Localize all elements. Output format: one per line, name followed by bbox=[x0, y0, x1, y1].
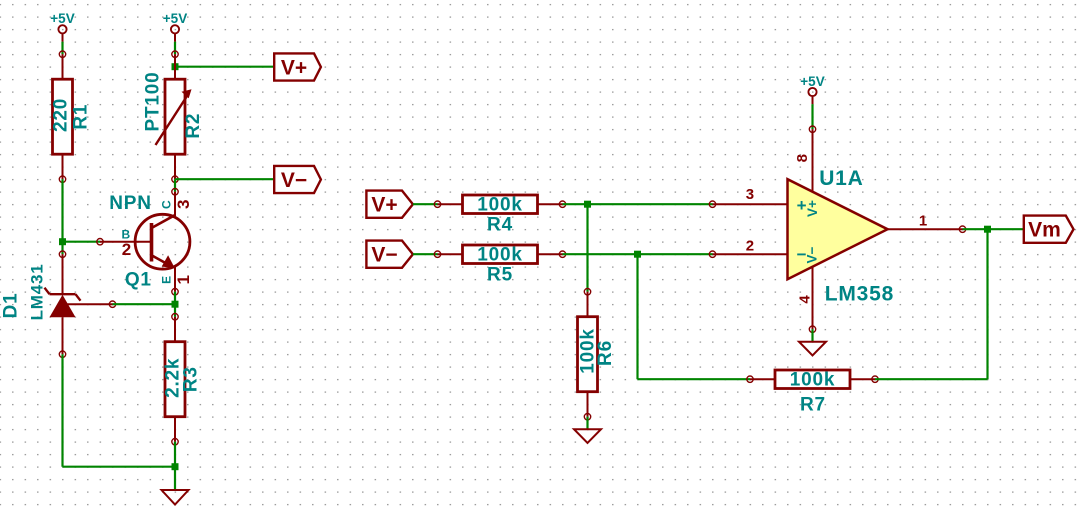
svg-text:1: 1 bbox=[919, 212, 927, 229]
wire V- label to R5 bbox=[413, 253, 438, 255]
wire R6 to ground bbox=[586, 417, 588, 430]
svg-text:8: 8 bbox=[794, 154, 811, 162]
wire D1 ref to emitter node bbox=[113, 303, 176, 305]
svg-text:R3: R3 bbox=[181, 366, 202, 392]
svg-text:D1: D1 bbox=[1, 292, 22, 318]
svg-text:LM431: LM431 bbox=[27, 263, 46, 320]
wire bottom rail bbox=[63, 466, 176, 468]
junction (R1 / D1 / base) bbox=[59, 238, 66, 245]
wire node to Q1 base bbox=[63, 241, 101, 243]
resistor R4 100k bbox=[434, 195, 565, 236]
resistor R5 100k bbox=[434, 245, 565, 286]
svg-text:C: C bbox=[160, 200, 174, 209]
resistor R6 100k bbox=[578, 289, 617, 420]
svg-text:Q1: Q1 bbox=[125, 269, 152, 290]
svg-text:R6: R6 bbox=[595, 340, 616, 366]
ground (op-amp) bbox=[799, 342, 826, 356]
power +5V (feeds R2) bbox=[163, 11, 187, 42]
svg-text:V−: V− bbox=[281, 169, 307, 192]
svg-text:+5V: +5V bbox=[50, 11, 74, 26]
wire output to Vm bbox=[963, 228, 1024, 230]
svg-text:U1A: U1A bbox=[819, 167, 863, 190]
wire R7 right to riser bbox=[875, 378, 988, 380]
junction (output / feedback) bbox=[984, 226, 991, 233]
global label V+ (input) bbox=[366, 191, 413, 218]
svg-text:Vm: Vm bbox=[1028, 219, 1061, 242]
svg-text:2: 2 bbox=[746, 238, 754, 255]
junction (rail / R3 / gnd) bbox=[172, 463, 179, 470]
svg-text:100k: 100k bbox=[477, 195, 522, 216]
junction (emitter / D1 ref / R3) bbox=[172, 301, 179, 308]
svg-text:R2: R2 bbox=[183, 113, 204, 139]
power +5V (left, feeds R1) bbox=[50, 11, 74, 42]
wire node to R6 bbox=[586, 204, 588, 292]
wire V+ label to R4 bbox=[413, 203, 438, 205]
hierarchical label V- bbox=[274, 166, 321, 193]
junction (R2 top / V+ tap) bbox=[172, 63, 179, 70]
svg-text:R7: R7 bbox=[800, 394, 826, 415]
wire +5V to R1 bbox=[61, 42, 63, 55]
svg-text:2: 2 bbox=[122, 240, 131, 259]
svg-text:V+: V+ bbox=[371, 193, 397, 216]
wire R2 bottom to V- label bbox=[175, 178, 274, 180]
svg-text:PT100: PT100 bbox=[142, 72, 163, 132]
wire pin4 to ground bbox=[811, 329, 813, 342]
svg-text:R5: R5 bbox=[487, 264, 513, 285]
svg-text:R1: R1 bbox=[71, 104, 92, 130]
wire Q1 emitter to R3 bbox=[174, 292, 176, 317]
shunt regulator D1 LM431 bbox=[1, 251, 116, 357]
resistor R3 2.2k bbox=[163, 314, 202, 445]
svg-text:V+: V+ bbox=[805, 200, 820, 217]
svg-text:LM358: LM358 bbox=[825, 283, 894, 306]
hierarchical label Vm bbox=[1024, 216, 1074, 243]
wire +5V to R2 bbox=[174, 42, 176, 55]
junction (R4 / R6 node) bbox=[584, 201, 591, 208]
wire R2 bottom to Q1 collector bbox=[174, 179, 176, 192]
svg-text:+5V: +5V bbox=[800, 74, 824, 89]
svg-text:1: 1 bbox=[174, 275, 193, 284]
power +5V (op-amp) bbox=[800, 74, 824, 104]
svg-text:220: 220 bbox=[51, 98, 72, 132]
svg-text:V−: V− bbox=[804, 246, 819, 263]
junction (R5 / feedback node) bbox=[634, 251, 641, 258]
wire node to D1 cathode bbox=[61, 242, 63, 255]
resistor R1 220 bbox=[51, 51, 92, 182]
svg-text:V−: V− bbox=[371, 243, 397, 266]
wire feedback node down bbox=[636, 254, 638, 379]
resistor R7 100k bbox=[747, 370, 878, 416]
thermistor R2 PT100 bbox=[142, 51, 204, 182]
wire R4 to op-amp pin3 bbox=[563, 203, 713, 205]
svg-text:100k: 100k bbox=[790, 370, 835, 391]
wire riser to output bbox=[986, 229, 988, 379]
svg-text:+5V: +5V bbox=[163, 11, 187, 26]
wire +5V to pin8 bbox=[811, 104, 813, 129]
wire to V+ label bbox=[175, 66, 274, 68]
svg-text:3: 3 bbox=[174, 200, 193, 209]
hierarchical label V+ bbox=[274, 53, 321, 80]
wire rail to ground bbox=[174, 467, 176, 490]
wire R5 to op-amp pin2 bbox=[563, 253, 713, 255]
ground (R6) bbox=[574, 429, 601, 443]
global label V- (input) bbox=[366, 241, 413, 268]
op-amp U1A LM358 bbox=[709, 126, 965, 332]
svg-text:V+: V+ bbox=[281, 56, 307, 79]
svg-text:100k: 100k bbox=[477, 245, 522, 266]
svg-text:4: 4 bbox=[796, 295, 813, 304]
svg-text:3: 3 bbox=[746, 186, 754, 203]
wire R1 bottom to base node bbox=[61, 179, 63, 242]
wire D1 anode down bbox=[61, 354, 63, 467]
transistor Q1 NPN bbox=[97, 189, 193, 295]
ground (main) bbox=[162, 490, 189, 505]
svg-text:NPN: NPN bbox=[109, 193, 152, 214]
wire R3 bottom to rail bbox=[174, 442, 176, 467]
wire to R7 left bbox=[638, 378, 751, 380]
svg-text:R4: R4 bbox=[487, 214, 513, 235]
svg-text:E: E bbox=[159, 276, 173, 284]
